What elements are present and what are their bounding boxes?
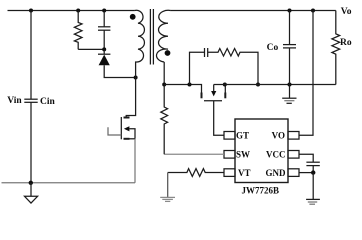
wire VCC pin to bypass cap (299, 154, 313, 162)
wire secondary ground rail (214, 84, 336, 86)
pin GND box (288, 169, 299, 177)
svg-text:GND: GND (266, 168, 287, 178)
wire SW pin to divider column (164, 153, 224, 155)
svg-text:GT: GT (236, 131, 249, 141)
wire primary bottom to MOSFET drain (126, 62, 136, 118)
wire top rail right (secondary top to Vo corner) (171, 10, 336, 12)
capacitor Co (283, 11, 296, 85)
capacitor RC snubber C2 (190, 48, 208, 85)
node junction top rail at snubber R (76, 9, 80, 13)
ground VT (160, 173, 175, 202)
pin VCC box (288, 151, 299, 159)
svg-text:VO: VO (272, 131, 285, 141)
pin VO box (288, 132, 299, 140)
transistor Q2 sync rectifier MOSFET (202, 85, 226, 136)
capacitor Cin (24, 99, 37, 102)
svg-text:Co: Co (267, 43, 279, 53)
pin GT box (224, 132, 235, 140)
wire GND pin to ground (299, 172, 313, 174)
svg-text:JW7726B: JW7726B (242, 186, 280, 196)
node junction bottom rail at Cin/ground (29, 181, 33, 185)
svg-text:VCC: VCC (266, 150, 286, 160)
node junction RC left leg (188, 83, 192, 87)
wire SW node rail to sync FET drain (164, 85, 201, 93)
resistor SW column R3 (161, 85, 168, 155)
wire MOSFET source to bottom rail (134, 139, 136, 183)
node junction SW node (162, 83, 166, 87)
transformer phase dot primary (130, 14, 136, 20)
node junction sync FET source (223, 83, 227, 87)
node junction VCC cap / GND (311, 170, 315, 174)
node junction top rail at Co (288, 9, 292, 13)
capacitor VCC bypass (306, 162, 319, 172)
svg-text:Cin: Cin (40, 97, 56, 107)
svg-text:VT: VT (238, 168, 251, 178)
capacitor snubber C (98, 11, 110, 50)
node junction RC right leg (256, 83, 260, 87)
transistor Q1 primary MOSFET (108, 117, 135, 139)
node junction top rail at VO riser (311, 9, 315, 13)
node junction diode anode to drain (134, 76, 138, 80)
resistor snubber R (74, 11, 82, 50)
transformer core (150, 9, 153, 65)
pin VT box (224, 169, 235, 177)
transformer T1 secondary winding (156, 10, 170, 62)
wire VO riser (299, 11, 313, 136)
resistor RC snubber R2 (208, 49, 258, 85)
ground IC (306, 173, 320, 205)
wire top rail left (Vin+ to primary top) (8, 10, 135, 12)
transformer T1 primary winding (135, 10, 145, 62)
wire Cin column upper (30, 11, 32, 100)
svg-text:Vo: Vo (341, 7, 352, 17)
wire Cin column lower (30, 102, 32, 183)
wire snubber R bottom to C bottom (78, 48, 104, 50)
svg-text:Ro: Ro (340, 38, 352, 48)
node junction top rail at Cin (29, 9, 33, 13)
svg-text:SW: SW (236, 150, 250, 160)
node junction snubber RCD (102, 47, 106, 51)
node junction Co bottom (288, 83, 292, 87)
pin SW box (224, 151, 235, 159)
resistor VT R4 (168, 169, 224, 177)
transformer phase dot secondary (165, 50, 171, 56)
wire secondary bottom to SW node (163, 62, 165, 85)
ground secondary (282, 85, 296, 104)
resistor Ro (332, 11, 340, 85)
IC U1 JW7726B body (235, 119, 288, 183)
wire bottom rail (2, 182, 136, 184)
diode clamp D (cathode up) (98, 49, 136, 77)
node junction top rail at snubber C (102, 9, 106, 13)
ground input (hollow triangle) (25, 183, 38, 203)
svg-text:Vin: Vin (7, 96, 22, 106)
